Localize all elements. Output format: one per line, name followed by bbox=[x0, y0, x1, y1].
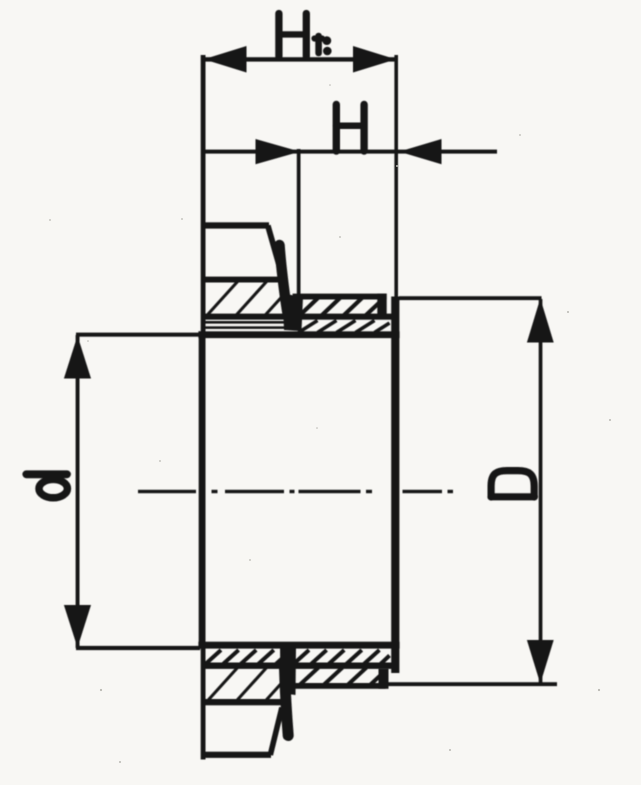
locknut top: hatch top line bbox=[202, 277, 284, 283]
extension line: sleeve right face (thin upper part) bbox=[394, 55, 398, 299]
sleeve bore bottom edge bbox=[198, 642, 399, 649]
dimension d bbox=[64, 333, 200, 651]
locknut bottom: bottom face bbox=[202, 752, 272, 758]
lockwasher tab top bbox=[280, 245, 304, 331]
label H bbox=[336, 105, 364, 152]
thread band bottom: right step bbox=[379, 669, 389, 689]
locknut bottom: hatch bottom line bbox=[202, 699, 284, 705]
thread band top: hatch bbox=[299, 298, 382, 317]
dimension line Ht bbox=[203, 46, 396, 73]
dimension D bbox=[386, 296, 557, 686]
thread band top: outer edge bbox=[293, 294, 387, 300]
locknut top: chamfer edge bbox=[268, 226, 282, 275]
sleeve bore bottom edge area: band B' marks bbox=[206, 650, 390, 664]
sleeve wall boundary line top bbox=[202, 314, 398, 320]
dimension line H bbox=[202, 139, 497, 164]
label d (rotated) bbox=[26, 474, 67, 498]
thread relief lines top (under nut) bbox=[204, 321, 288, 329]
thread band bottom: outer edge bbox=[293, 683, 386, 689]
centerline bbox=[138, 490, 453, 493]
sleeve bore left edge bbox=[199, 331, 205, 649]
locknut top: hatch bbox=[206, 281, 284, 318]
locknut bottom: hatch bbox=[206, 666, 283, 703]
extension line: sleeve left face (full height) bbox=[201, 55, 206, 760]
thread band top: right step bbox=[377, 294, 386, 315]
locknut top: top face bbox=[202, 222, 269, 228]
label Ht bbox=[279, 14, 332, 57]
lockwasher tab bottom bbox=[280, 646, 296, 736]
locknut bottom: chamfer edge bbox=[270, 708, 282, 756]
label D (rotated) bbox=[491, 471, 534, 497]
sleeve wall boundary line bottom bbox=[202, 663, 398, 669]
sleeve right end face (thick) bbox=[391, 297, 399, 674]
thread band B top marks bbox=[299, 321, 390, 333]
sleeve bore top edge bbox=[198, 331, 399, 338]
thread band bottom: hatch bbox=[299, 668, 384, 686]
extension line: H left (washer face) bbox=[297, 149, 301, 296]
